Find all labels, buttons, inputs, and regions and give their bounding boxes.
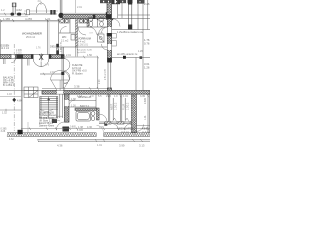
- closet wall hatched segments: [105, 122, 111, 125]
- bottom wall H4 zigzag: [7, 133, 150, 137]
- wall V3 lower segment: [108, 88, 112, 91]
- svg-text:2.01: 2.01: [66, 54, 71, 57]
- wall V5 top-right: [129, 0, 132, 30]
- svg-text:1.01: 1.01: [97, 144, 102, 147]
- window pier right dark blocks: [50, 10, 52, 15]
- hall door post blob: [61, 72, 64, 75]
- diamond marker: [12, 98, 16, 102]
- svg-text:1.76: 1.76: [36, 48, 41, 50]
- H3 door gap: [57, 90, 63, 94]
- entrance door arc top-right: [112, 19, 120, 27]
- svg-text:2.26/1.01: 2.26/1.01: [78, 44, 89, 47]
- furniture rects right wall: [112, 34, 117, 47]
- bathroom bottom-middle walls: [75, 108, 99, 120]
- svg-text:4.62: 4.62: [16, 8, 22, 12]
- abstell shelf lines: [69, 101, 96, 108]
- svg-text:1.01: 1.01: [144, 115, 147, 120]
- chimney dark blob on H2: [17, 54, 24, 58]
- door swing marks: [113, 118, 130, 122]
- svg-text:1.0: 1.0: [114, 95, 118, 98]
- svg-text:0.76: 0.76: [144, 42, 150, 46]
- exterior wall V3 top hatched: [107, 0, 112, 15]
- thin lines right of V3: [112, 0, 151, 91]
- staircase: [40, 97, 58, 119]
- sink room door arc: [60, 27, 67, 34]
- bottom dim texts: [57, 144, 145, 148]
- svg-text:B 1.25/2.0: B 1.25/2.0: [3, 84, 15, 87]
- WC bowl 2: [99, 18, 103, 27]
- partition hatched stubs: [76, 19, 78, 47]
- hall dim ticks: [43, 73, 63, 76]
- svg-text:4.89: 4.89: [17, 100, 22, 103]
- V4 door gap: [64, 100, 75, 106]
- svg-text:1.52: 1.52: [2, 112, 7, 115]
- abstell right wall: [95, 94, 97, 108]
- svg-text:3.38: 3.38: [74, 85, 80, 89]
- H4 insulation zigzag: [7, 133, 96, 136]
- wall stub top-left: [12, 3, 16, 14]
- dark mark on terrace line: [140, 56, 143, 59]
- right edge vertical dim texts: [144, 97, 147, 120]
- lines below bottom wall: [38, 140, 150, 141]
- door arc V4 bottom: [56, 122, 64, 130]
- interior partitions top-middle block: [59, 19, 111, 47]
- svg-text:DIELE: DIELE: [50, 46, 58, 49]
- double door arcs: [33, 59, 49, 68]
- vorraum-kitchen stub: [76, 47, 77, 57]
- junction blob: [58, 13, 63, 18]
- svg-text:1.0/2.2: 1.0/2.2: [114, 102, 117, 110]
- svg-text:1.13: 1.13: [77, 95, 82, 98]
- svg-text:5.5: 5.5: [98, 95, 102, 98]
- svg-text:2.51/2.135: 2.51/2.135: [105, 68, 107, 80]
- bath sink: [91, 112, 95, 116]
- partition line left: [20, 59, 22, 133]
- dimension line top-left: [0, 13, 57, 15]
- wall H2 hatched segments: [0, 55, 63, 59]
- terrace line right: [112, 58, 151, 91]
- wall V6 hatched: [132, 94, 137, 132]
- door arcs at V3 gaps: [102, 27, 108, 50]
- thin wall line H3 left part: [0, 90, 42, 92]
- dim line above bottom wall: [21, 126, 150, 130]
- svg-text:3.39: 3.39: [140, 95, 145, 98]
- balkon text block: [3, 76, 15, 87]
- hall wall vertical with arc: [40, 47, 70, 89]
- svg-text:0.885: 0.885: [70, 127, 76, 129]
- door arcs bottom-right: [112, 124, 131, 131]
- wall stub top-center: [60, 0, 62, 14]
- dimension text blob left: [11, 13, 22, 16]
- wall V4 hatched: [65, 94, 70, 122]
- H2 kitchen junction blob: [61, 54, 64, 58]
- svg-text:1.2: 1.2: [1, 8, 5, 12]
- svg-text:am WC-unterm zu: am WC-unterm zu: [117, 53, 138, 56]
- dim text row under H3: [77, 95, 145, 98]
- kitchen label: [72, 64, 87, 75]
- ticks on dim row: [107, 95, 148, 98]
- dim extension line: [27, 122, 29, 133]
- ticks below bottom wall: [37, 139, 142, 142]
- bathtub: [76, 111, 91, 121]
- svg-text:3.99: 3.99: [119, 144, 125, 148]
- svg-text:4.36: 4.36: [87, 126, 92, 129]
- french door swing top: [0, 3, 58, 17]
- door arc small at H2 gap: [11, 59, 15, 63]
- dim texts above living room line: [3, 17, 51, 21]
- svg-text:ABST.: ABST.: [110, 103, 113, 110]
- svg-text:1.01: 1.01: [123, 95, 128, 98]
- H4 gap edge lines: [97, 125, 104, 136]
- bath wc: [91, 116, 94, 120]
- arch center tick: [40, 2, 42, 6]
- bath door arc: [99, 114, 107, 122]
- svg-text:1.26: 1.26: [71, 104, 76, 107]
- living room top line: [0, 19, 60, 54]
- window pier left: [27, 10, 30, 15]
- wall V3 mid hatched: [107, 19, 112, 63]
- svg-text:1.365: 1.365: [77, 129, 84, 132]
- svg-text:4.36: 4.36: [57, 144, 63, 148]
- stair-hall wall: [60, 94, 63, 118]
- wc cabinet: [71, 35, 75, 41]
- svg-text:Fl. Boden: Fl. Boden: [72, 72, 83, 75]
- axis dash line left: [13, 44, 15, 131]
- dim ticks on y14 line: [4, 13, 26, 16]
- sink fixtures pair: [60, 19, 69, 23]
- door center X mark: [39, 54, 43, 61]
- dark blobs annotations: [52, 119, 57, 123]
- svg-text:Tr.-Belag Fliesen: Tr.-Belag Fliesen: [39, 114, 57, 117]
- svg-text:1.01: 1.01: [45, 17, 51, 21]
- closet vertical texts: [110, 102, 129, 110]
- right margin dim texts: [144, 2, 150, 70]
- corridor door post: [104, 122, 107, 125]
- svg-text:2.1 m2: 2.1 m2: [61, 40, 69, 43]
- svg-text:1.38: 1.38: [78, 126, 83, 129]
- bottom-right rooms: walls: [99, 94, 150, 133]
- hall partition hatched: [57, 44, 59, 55]
- WC bowl 1: [89, 18, 93, 27]
- door posts dark: [31, 54, 33, 58]
- svg-text:4.03: 4.03: [7, 93, 12, 96]
- small dim line left: [0, 109, 21, 111]
- kitchen dim line top: [62, 56, 99, 59]
- annotation text cluster bottom-left: [39, 112, 57, 128]
- svg-text:Sp 60/60: Sp 60/60: [77, 52, 87, 54]
- WC door arcs: [89, 27, 106, 35]
- svg-text:2.01: 2.01: [77, 6, 82, 9]
- exterior wall H1 hatched: [63, 12, 112, 19]
- jamb below wall left: [28, 59, 29, 66]
- svg-text:BAD 5.2: BAD 5.2: [80, 105, 90, 108]
- dim line vertical above wall: [75, 0, 77, 13]
- svg-text:1.385: 1.385: [3, 17, 10, 21]
- svg-text:25.6 m2: 25.6 m2: [26, 36, 36, 39]
- kind door arc: [137, 124, 144, 131]
- svg-text:16 Stg 18.6/26: 16 Stg 18.6/26: [39, 112, 55, 115]
- kitchen partition line: [97, 57, 99, 89]
- section marker black blob: [18, 130, 23, 134]
- svg-text:2.635: 2.635: [144, 97, 147, 104]
- svg-text:1.38: 1.38: [71, 98, 76, 101]
- small texts left of bottom wall: [1, 128, 8, 134]
- svg-text:3.26: 3.26: [1, 130, 6, 133]
- svg-text:4.62: 4.62: [9, 138, 14, 141]
- svg-text:4.255: 4.255: [25, 17, 32, 21]
- svg-text:1.50: 1.50: [87, 54, 92, 57]
- svg-text:2.26: 2.26: [144, 2, 150, 6]
- column black square: [123, 56, 126, 59]
- svg-text:1.76: 1.76: [45, 65, 50, 67]
- terrace sliding door opening: [108, 62, 111, 88]
- leader lines: [54, 116, 63, 121]
- kitchen dim line: [42, 87, 111, 90]
- svg-text:FLUR: FLUR: [123, 103, 126, 110]
- top edge clipped text bar: [100, 0, 145, 4]
- svg-text:1 Zw-Bima matters uw: 1 Zw-Bima matters uw: [117, 30, 143, 34]
- shower room door arc: [78, 27, 86, 35]
- svg-text:3.13: 3.13: [139, 144, 145, 148]
- svg-text:12.4 m2: 12.4 m2: [1, 47, 10, 50]
- svg-text:Estrich 55mm: Estrich 55mm: [39, 122, 53, 125]
- svg-text:1.26: 1.26: [144, 66, 150, 70]
- balcony door stub left: [4, 59, 6, 65]
- svg-text:2.26: 2.26: [99, 79, 101, 84]
- wall H3 hatched: [42, 91, 150, 95]
- svg-text:WC: WC: [62, 35, 66, 39]
- short line left: [0, 96, 21, 98]
- svg-text:1.0/2.2: 1.0/2.2: [127, 102, 130, 110]
- door hinge dots: [97, 18, 99, 20]
- svg-text:Daemm 40mm: Daemm 40mm: [39, 126, 54, 128]
- shower tray: [98, 34, 105, 42]
- svg-text:2.0: 2.0: [90, 95, 94, 98]
- svg-text:1.26: 1.26: [138, 50, 143, 53]
- dining table grid: [24, 87, 38, 98]
- double door dome above H3 gap: [51, 71, 70, 91]
- svg-text:1.01: 1.01: [64, 83, 69, 85]
